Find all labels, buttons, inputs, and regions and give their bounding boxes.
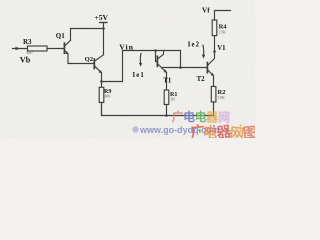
wire base line T1 to T2 bbox=[162, 67, 207, 69]
junction dot R1 at ground rail bbox=[165, 114, 168, 117]
resistor R3 bbox=[23, 38, 47, 55]
node Vb input terminal bbox=[13, 47, 28, 50]
node V1 bbox=[213, 45, 226, 53]
power +5V bbox=[94, 13, 108, 55]
wire R1 to ground rail bbox=[166, 105, 168, 116]
wire node to Vin rail bbox=[102, 51, 123, 82]
resistor R4 bbox=[212, 20, 227, 36]
wire ground rail bbox=[102, 103, 214, 116]
junction dot at base line corner bbox=[179, 66, 182, 69]
transistor Q2 bbox=[85, 55, 104, 73]
junction dot at +5V rail and Q1 collector bbox=[102, 27, 105, 30]
wire T1 base stub bbox=[156, 51, 158, 62]
wire V1 up to R4 bbox=[214, 36, 216, 52]
wire T1 emitter to R1 bbox=[166, 73, 168, 91]
transistor T2 bbox=[197, 52, 215, 84]
junction dot T1 base stub bbox=[154, 49, 157, 52]
wire R3 to Q1 base bbox=[47, 48, 64, 50]
wire Q1 collector to +5V rail bbox=[71, 29, 104, 41]
resistor R1 bbox=[164, 90, 177, 105]
wire R2 to ground rail bbox=[213, 102, 215, 116]
junction dot at Q2 emitter node bbox=[100, 80, 103, 83]
resistor R2 bbox=[211, 87, 225, 103]
transistor T1 bbox=[157, 51, 171, 85]
wire rail corner down to base line bbox=[180, 51, 182, 68]
wire Vin rail bbox=[123, 50, 181, 52]
wire R9 to ground rail bbox=[101, 103, 103, 116]
wire T2 emitter to R2 bbox=[213, 76, 215, 87]
resistor R9 bbox=[99, 87, 111, 102]
current arrow Ie2 bbox=[188, 42, 205, 59]
wire Q2 emitter down to node bbox=[101, 73, 103, 87]
transistor Q1 bbox=[56, 32, 71, 54]
wire R4 top to Vf output bbox=[215, 11, 231, 21]
wire Q1 emitter to Q2 base bbox=[68, 54, 94, 64]
current arrow Ie1 bbox=[133, 54, 145, 80]
